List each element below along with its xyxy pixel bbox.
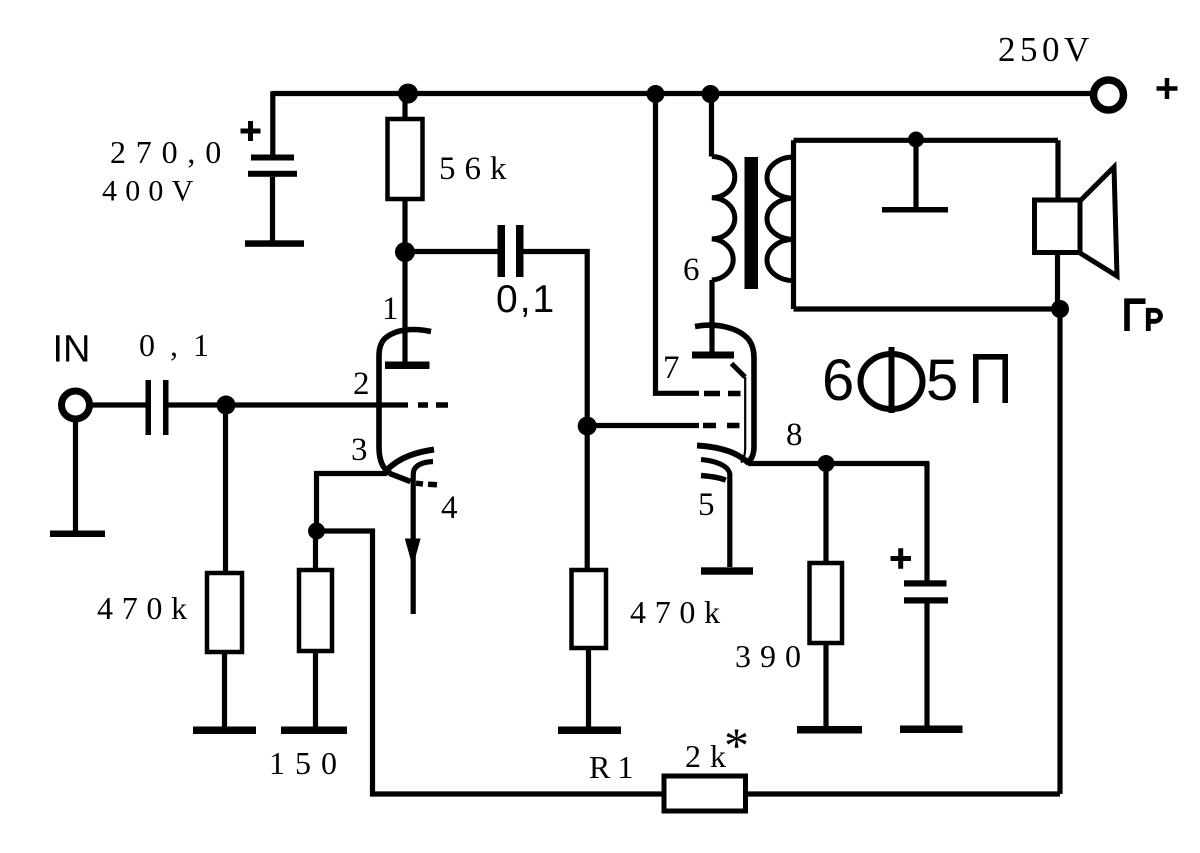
pentode anode bar [692,352,734,359]
junction dot input node [217,396,236,415]
plus at bypass cap [891,548,912,569]
wire 270,0 to ground [270,177,275,241]
wire pin 8 [748,461,929,466]
ground bar secondary [882,207,948,213]
capacitor 0,1 input plate L [146,380,152,435]
capacitor 270,0 plate 1 [251,155,294,161]
pentode screen dashes [704,391,741,397]
svg-text:7: 7 [663,350,680,386]
terminal 250V [1094,80,1124,110]
wire 470k mid bottom lead [586,648,591,727]
svg-text:5: 5 [698,487,715,523]
capacitor 270,0 plate 2 [248,171,297,177]
ground under 390 [797,726,862,734]
pentode beam diagonal [732,364,746,378]
svg-text:270,0: 270,0 [110,134,231,170]
svg-text:390: 390 [735,638,810,674]
capacitor bypass plate top [904,580,947,586]
ground under 270,0 [245,240,304,247]
triode heater lead [413,462,433,615]
wire bypass cap top lead [924,462,929,582]
wire anode to coupling cap [405,249,498,254]
svg-text:56k: 56k [439,151,516,187]
wire coupling cap to grid node [524,252,588,427]
resistor 390 body [810,563,843,643]
wire 56k top lead [402,94,407,120]
svg-text:4: 4 [441,490,458,526]
wire feedback left run [317,531,665,794]
resistor R1 body [664,776,746,811]
junction dot B+/primary [702,85,720,103]
capacitor 0,1 input plate R [163,380,169,435]
pentode beam inner line [741,377,745,463]
resistor 56k body [388,119,423,199]
plus sign at 270,0 [241,121,261,141]
capacitor 0,1 coupling plate L [498,225,506,277]
svg-text:2: 2 [353,366,370,402]
svg-text:0,1: 0,1 [496,278,556,321]
wire 390 bottom lead [823,643,828,727]
speaker horn [1080,167,1117,276]
ground under 470k input [193,727,256,735]
plus at 250V [1157,78,1178,99]
wire 470k input top lead [223,405,228,573]
junction dot secondary ground [908,132,924,148]
resistor 470k input body [207,573,242,652]
svg-text:150: 150 [269,745,347,781]
wire bottom right run [746,791,1061,796]
triode cathode [386,450,435,472]
wire pin 5 [727,473,732,567]
transformer secondary winding [767,157,794,281]
wire secondary bottom [794,306,1061,311]
wire IN ground drop [73,419,78,533]
label Гр [1127,301,1161,331]
junction dot output node [1051,300,1069,318]
wire pin 3 [317,474,388,532]
ground under IN [50,531,105,538]
wire right rail [1057,309,1062,794]
wire secondary ground stub [913,140,918,208]
pentode envelope [695,325,754,463]
wire speaker bottom [1055,253,1060,310]
capacitor 0,1 coupling plate R [516,225,524,277]
wire triode anode lead [402,253,407,362]
wire 150 bottom lead [313,651,318,727]
junction dot pentode cathode [818,455,835,472]
wire 390 top lead [823,464,828,564]
wire IN to input cap [92,402,146,407]
capacitor bypass plate bottom [904,597,948,603]
junction dot B+/screen [647,85,665,103]
svg-text:5: 5 [926,348,958,413]
ground under bypass cap [900,726,963,734]
wire B+ top rail [273,91,1092,96]
ground under 470k mid [558,727,621,735]
resistor 470k mid body [572,570,607,648]
wire 470k mid top lead [585,426,590,570]
ground under 150 [281,727,347,735]
junction dot cathode node [308,523,325,540]
pentode cathode [697,446,749,464]
wire grid feed [587,423,699,428]
pentode control grid dashes [703,423,740,429]
svg-text:470k: 470k [630,594,729,630]
svg-text:0,1: 0,1 [139,327,224,363]
svg-text:250V: 250V [998,30,1094,69]
transformer primary winding [712,157,735,281]
terminal IN [62,391,90,419]
triode envelope dashes [416,483,437,485]
svg-text:1: 1 [382,291,399,327]
transformer secondary spine [791,140,796,309]
wire filter cap drop [270,91,275,155]
triode grid dashes [418,402,448,408]
heater arrowhead [405,539,421,568]
svg-text:400V: 400V [102,175,201,208]
label tube 6Ф5П [822,347,1005,413]
svg-text:6: 6 [683,252,700,288]
svg-text:IN: IN [53,329,91,371]
triode anode bar [385,362,430,370]
wire 470k input bottom lead [222,652,227,727]
resistor 150 body [299,570,332,651]
wire 150 top lead [313,531,318,570]
junction dot anode node [395,242,415,262]
speaker box [1035,200,1081,253]
pentode heater arc 2 [701,476,726,481]
svg-text:R1: R1 [589,749,640,785]
triode envelope [379,330,431,482]
svg-text:470k: 470k [97,590,196,626]
transformer core [745,157,759,289]
svg-text:3: 3 [351,432,368,468]
wire to speaker top [1055,140,1060,200]
wire bypass bottom lead [924,604,929,727]
svg-text:8: 8 [786,417,803,453]
wire pentode anode lead [709,280,714,352]
pentode heater arc 1 [701,460,730,475]
ground bar pin 5 [701,567,753,574]
svg-text:6: 6 [822,348,854,413]
junction dot B+/56k [398,84,418,104]
wire input cap to triode grid [169,402,409,407]
svg-text:*: * [724,717,749,773]
wire screen drop [656,94,700,394]
wire secondary top [794,138,1059,143]
wire 56k bottom lead [402,199,407,253]
transformer primary lead [709,94,714,157]
junction dot grid node [578,417,597,436]
